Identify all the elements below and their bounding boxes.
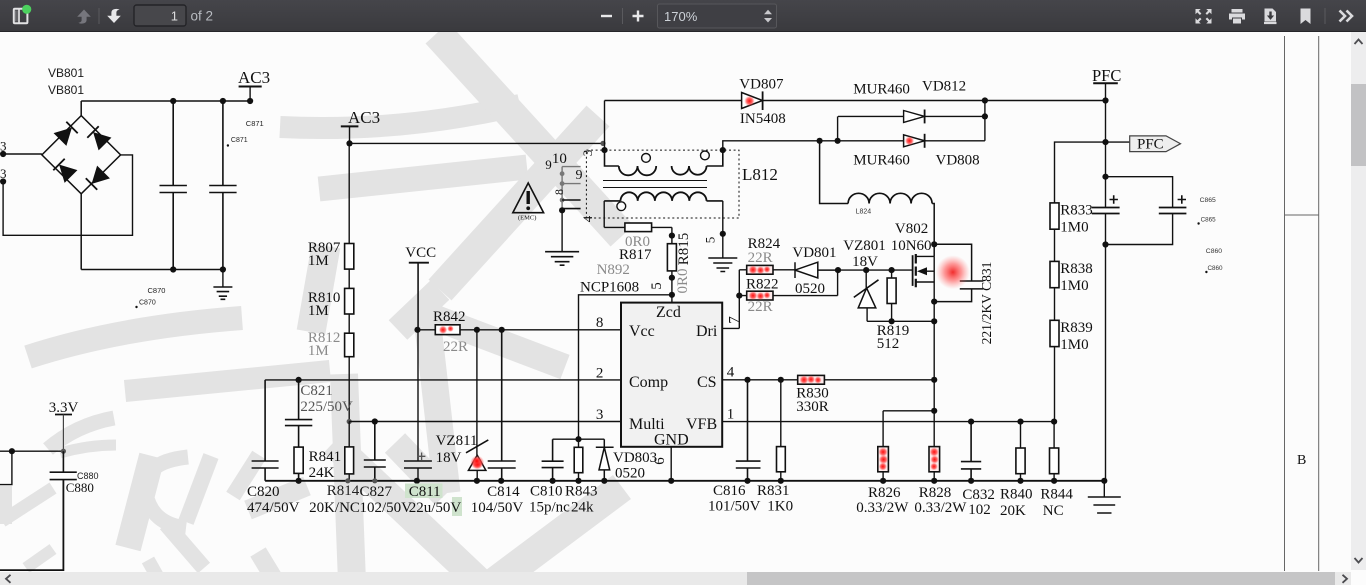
polarity dot (top left) — [642, 154, 651, 163]
svg-text:Multi: Multi — [629, 416, 665, 433]
svg-text:0R0: 0R0 — [675, 268, 691, 293]
AC3 left terminal bar — [239, 86, 262, 88]
svg-text:18V: 18V — [436, 450, 462, 466]
svg-text:R839: R839 — [1060, 320, 1093, 336]
junction — [414, 478, 420, 484]
wire CS rail (pin 4) — [722, 379, 798, 381]
svg-text:Dri: Dri — [696, 323, 718, 340]
junction PFC flag — [1102, 139, 1108, 145]
junction (gray) — [61, 449, 66, 454]
svg-text:C870: C870 — [139, 300, 156, 307]
wire to Multi rail — [348, 357, 350, 422]
transformer L812 dotted box — [586, 150, 739, 218]
resistor R833 — [1050, 203, 1059, 229]
svg-text:225/50V: 225/50V — [300, 399, 353, 415]
svg-text:15p/nc: 15p/nc — [529, 500, 570, 516]
junction VD801 out — [835, 267, 841, 273]
wire Comp rail (pin 2) — [265, 379, 621, 381]
svg-text:CS: CS — [697, 374, 717, 391]
resistor R817 (0R0) — [604, 226, 672, 228]
wire Dri column — [738, 270, 740, 329]
ground (bridge) — [213, 287, 232, 299]
junction — [498, 478, 504, 484]
junction — [778, 478, 784, 484]
svg-text:PFC: PFC — [1137, 137, 1164, 153]
junction — [9, 448, 15, 454]
wire to ground — [222, 270, 224, 288]
page frame lines — [1285, 36, 1319, 571]
resistor R828 — [929, 447, 940, 472]
svg-text:0520: 0520 — [615, 466, 645, 482]
wire bridge bottom rail — [81, 269, 223, 271]
download icon — [1264, 9, 1277, 24]
svg-text:R822: R822 — [746, 277, 779, 293]
svg-text:C827: C827 — [360, 484, 393, 500]
svg-text:18V: 18V — [852, 254, 878, 270]
wire VD812 line — [838, 115, 985, 117]
capacitor C871 — [209, 101, 236, 270]
svg-text:C816: C816 — [713, 483, 746, 499]
svg-text:NC: NC — [1043, 503, 1064, 519]
svg-text:330R: 330R — [796, 399, 829, 415]
svg-text:20K/NC: 20K/NC — [309, 500, 360, 516]
junction R815 bottom — [669, 275, 675, 281]
junction — [1017, 478, 1023, 484]
svg-text:NCP1608: NCP1608 — [580, 280, 639, 296]
svg-text:R815: R815 — [676, 233, 692, 266]
svg-text:C865: C865 — [1201, 217, 1217, 224]
svg-text:VD812: VD812 — [922, 79, 966, 95]
junction (gray) — [600, 141, 605, 146]
svg-text:1: 1 — [727, 407, 735, 423]
wire source column — [933, 282, 935, 447]
svg-text:R840: R840 — [1000, 487, 1033, 503]
wire to R807 — [348, 143, 350, 243]
diode VD807 IN5408 — [742, 93, 763, 109]
capacitor C821 + resistor R841 column — [285, 380, 312, 481]
print icon — [1229, 9, 1245, 24]
bridge rectifier VB801 — [42, 101, 121, 270]
svg-text:24K: 24K — [309, 465, 335, 481]
wire right junction drop — [984, 101, 986, 141]
wire — [933, 472, 935, 481]
svg-text:22R: 22R — [748, 299, 773, 315]
wire — [882, 472, 884, 481]
resistor R824 — [739, 269, 795, 271]
wire top rail (bridge output) — [81, 100, 250, 102]
PFC flag — [1106, 141, 1130, 143]
junction AC3 — [247, 98, 253, 104]
marker dot — [1197, 222, 1199, 224]
svg-text:C880: C880 — [66, 480, 94, 495]
toolbar (pdf.js) — [0, 0, 1366, 32]
svg-text:C814: C814 — [487, 484, 520, 500]
resistor R819 — [891, 270, 893, 321]
svg-text:102/50V: 102/50V — [360, 500, 413, 516]
svg-text:L812: L812 — [742, 165, 778, 184]
svg-text:22u/50V: 22u/50V — [409, 500, 462, 516]
svg-text:9: 9 — [545, 157, 552, 172]
svg-text:V802: V802 — [895, 221, 928, 237]
page number input — [134, 5, 186, 26]
capacitor C880 — [50, 451, 77, 479]
svg-text:VD803: VD803 — [613, 450, 657, 466]
pin (transformer top right) — [720, 147, 726, 153]
wire to main ground — [1103, 481, 1105, 497]
zener VZ811 — [476, 330, 478, 455]
svg-text:N892: N892 — [597, 262, 630, 278]
junction — [968, 478, 974, 484]
junction — [550, 478, 556, 484]
junction — [744, 478, 750, 484]
wire caps bottom — [1106, 214, 1173, 245]
junction — [296, 478, 302, 484]
svg-text:4: 4 — [580, 215, 595, 222]
junction VCC — [414, 327, 420, 333]
gray junction 2 — [560, 181, 565, 186]
junction R843 group — [575, 436, 581, 442]
junction R844/R839 — [1051, 419, 1057, 425]
wire AC input 1 — [3, 153, 42, 155]
svg-text:VD808: VD808 — [936, 153, 980, 169]
gray junction 1 — [560, 171, 565, 176]
svg-text:104/50V: 104/50V — [471, 500, 524, 516]
capacitor C820 — [252, 380, 279, 481]
resistor R838 — [1050, 261, 1059, 287]
diode VD808 MUR460 — [904, 135, 925, 147]
gray junction 3 — [560, 198, 565, 203]
capacitor C832 — [961, 422, 981, 481]
capacitor C831 — [934, 244, 983, 301]
wire AC3 stub — [249, 87, 251, 102]
svg-text:4: 4 — [727, 365, 735, 381]
wire up to VD812 — [837, 116, 839, 140]
resistor R807 — [345, 244, 354, 270]
resistor R826 — [878, 447, 889, 472]
zener VZ801 — [865, 270, 867, 288]
junction C821 — [296, 377, 302, 383]
junction R840 — [1017, 419, 1023, 425]
svg-text:8: 8 — [552, 189, 566, 195]
junction cap branch — [1102, 174, 1108, 180]
wire left drop — [0, 451, 12, 484]
junction C816 — [744, 377, 750, 383]
transistor V802 MOSFET — [912, 255, 914, 286]
resistor R844 — [1053, 422, 1055, 481]
junction — [601, 478, 607, 484]
svg-text:1M0: 1M0 — [1060, 278, 1088, 294]
svg-text:AC3: AC3 — [348, 108, 380, 127]
capacitor C811 (electrolytic) — [404, 263, 432, 481]
svg-text:C810: C810 — [530, 484, 563, 500]
wire C880 to bottom — [0, 480, 63, 570]
junction — [474, 478, 480, 484]
resistor R815 (0R0) — [671, 227, 673, 294]
wire pin 4 drop — [603, 201, 605, 228]
svg-text:1M: 1M — [308, 343, 329, 359]
junction pin 6 — [668, 478, 674, 484]
plus sign C811 — [418, 453, 426, 461]
wire Multi rail (pin 3) — [349, 421, 621, 423]
wire GND pin 6 — [670, 447, 672, 481]
svg-text:1: 1 — [171, 9, 178, 24]
wire to EMC ground — [561, 210, 563, 251]
junction — [982, 97, 988, 103]
PFC terminal bar — [1093, 82, 1118, 84]
junction AC3 rail — [346, 140, 352, 146]
plus sign C860 — [1178, 195, 1186, 203]
EMC pins gray wires — [562, 167, 581, 211]
junction — [1051, 478, 1057, 484]
wire ground rail — [265, 480, 1104, 482]
svg-text:C832: C832 — [962, 487, 995, 503]
svg-text:VB801: VB801 — [48, 66, 84, 80]
node input 2 — [0, 178, 6, 184]
core lines — [603, 181, 707, 188]
wire gate rail — [838, 269, 913, 271]
wire R826 branch — [883, 410, 934, 412]
resistor R839 — [1050, 320, 1059, 346]
svg-text:PFC: PFC — [1092, 66, 1121, 85]
diode VD803 — [596, 439, 614, 481]
resistor R841 — [294, 447, 303, 473]
svg-text:IN5408: IN5408 — [740, 111, 786, 127]
resistor R810 — [345, 288, 354, 314]
ground (transformer pin 5) — [708, 258, 737, 272]
svg-text:MUR460: MUR460 — [853, 153, 910, 169]
wire AC3 stub 2 — [349, 126, 351, 143]
svg-text:0.33/2W: 0.33/2W — [856, 500, 909, 516]
winding secondary (bottom) — [604, 200, 620, 202]
wire pin 5 drop — [722, 201, 724, 258]
junction R815 top — [669, 233, 675, 239]
svg-text:Zcd: Zcd — [656, 304, 681, 321]
horizontal scrollbar — [0, 572, 1351, 585]
junction R819 — [889, 267, 895, 273]
separator — [98, 8, 100, 24]
wire PFC column — [1105, 83, 1107, 207]
svg-text:R844: R844 — [1040, 487, 1073, 503]
node input 1 — [0, 151, 6, 157]
presentation mode icon — [1195, 9, 1211, 24]
resistor R812 — [345, 333, 354, 357]
svg-text:C871: C871 — [231, 137, 248, 144]
svg-text:R838: R838 — [1060, 261, 1093, 277]
junction (gray) — [345, 478, 350, 483]
svg-text:VZ801: VZ801 — [843, 238, 886, 254]
svg-text:R841: R841 — [309, 449, 342, 465]
svg-text:R843: R843 — [565, 484, 598, 500]
3.3V terminal bar — [55, 414, 72, 416]
svg-text:R814: R814 — [327, 483, 360, 499]
diode VD801 — [795, 262, 838, 278]
wire Zcd rail — [579, 295, 672, 439]
wire to R826 — [882, 411, 884, 447]
EMC cap plates — [562, 200, 581, 209]
junction C814 column — [499, 327, 505, 333]
svg-text:VZ811: VZ811 — [436, 433, 478, 449]
wire R833 branch — [1055, 142, 1106, 203]
wire Dri pin 7 — [722, 327, 739, 329]
junction main ground — [1101, 478, 1107, 484]
capacitor C870 — [160, 101, 187, 270]
svg-text:3: 3 — [580, 150, 595, 157]
svg-text:C871: C871 — [246, 119, 264, 128]
junction — [170, 98, 176, 104]
junction C831 bottom — [931, 299, 937, 305]
sidebar toggle icon — [14, 9, 28, 23]
resistor R842 — [435, 325, 460, 335]
capacitor C827 — [364, 422, 386, 481]
junction R831 — [778, 377, 784, 383]
wire left net — [0, 450, 63, 452]
bookmark icon — [1301, 9, 1311, 25]
svg-text:3: 3 — [596, 407, 604, 423]
bridge diodes — [53, 122, 110, 190]
highlight marker C831 — [936, 255, 970, 289]
svg-text:VB801: VB801 — [48, 83, 84, 97]
junction R826 branch — [931, 408, 937, 414]
junction C827 — [372, 418, 378, 424]
polarity dot (bottom) — [617, 202, 626, 211]
junction VD812 branch — [835, 138, 841, 144]
resistor R830 — [798, 375, 825, 384]
svg-text:20K: 20K — [1000, 503, 1026, 519]
junction VZ801 — [863, 267, 869, 273]
vertical scrollbar — [1351, 32, 1366, 570]
capacitor C865 (electrolytic) — [1092, 208, 1120, 214]
green notification dot — [22, 5, 31, 14]
wire R843 group rail — [553, 438, 605, 440]
svg-text:221/2KV C831: 221/2KV C831 — [979, 262, 994, 345]
capacitor C860 (electrolytic) — [1159, 208, 1187, 214]
AC3 terminal bar — [341, 125, 359, 127]
svg-text:5: 5 — [703, 237, 718, 244]
wire 3.3V stub — [62, 415, 64, 452]
marker dot C870 — [135, 306, 137, 308]
svg-text:R842: R842 — [433, 309, 466, 325]
resistor R843 — [578, 439, 580, 481]
marker dot — [1205, 271, 1207, 273]
junction VZ811 column — [474, 327, 480, 333]
svg-text:170%: 170% — [664, 9, 698, 24]
junction — [889, 318, 895, 324]
junction source column — [931, 318, 937, 324]
junction CS rail — [931, 377, 937, 383]
zoom out — [601, 15, 612, 17]
svg-text:1K0: 1K0 — [767, 499, 793, 515]
capacitor C814 — [488, 330, 516, 481]
svg-text:(EMC): (EMC) — [518, 215, 536, 222]
previous page arrow (disabled) — [77, 10, 91, 24]
svg-text:GND: GND — [654, 432, 689, 449]
junction (gray) — [347, 419, 352, 424]
svg-text:C821: C821 — [300, 383, 333, 399]
junction L824 — [817, 138, 823, 144]
svg-text:5: 5 — [649, 282, 665, 290]
wire to VFB rail — [1054, 347, 1056, 422]
junction — [880, 478, 886, 484]
svg-text:R826: R826 — [868, 485, 901, 501]
junction — [931, 478, 937, 484]
resistor R840 — [1020, 422, 1022, 481]
resistor R831 — [780, 380, 782, 481]
wire VCC stub — [417, 263, 419, 330]
marker dot C871 — [227, 144, 229, 146]
wire — [418, 329, 436, 331]
svg-text:Comp: Comp — [629, 374, 668, 391]
wire VFB rail (pin 1) — [722, 421, 1054, 423]
svg-text:B: B — [1297, 453, 1306, 468]
op-amp U1 NCP1608 body — [621, 303, 722, 447]
wire — [1054, 229, 1056, 261]
diode VD812 MUR460 — [904, 111, 925, 123]
svg-text:Vcc: Vcc — [629, 323, 655, 340]
junction — [170, 266, 176, 272]
polarity dot (top right) — [701, 151, 710, 160]
svg-text:R831: R831 — [757, 483, 790, 499]
resistor R814 — [348, 422, 350, 481]
wire — [348, 314, 350, 333]
svg-text:22R: 22R — [443, 339, 468, 355]
junction VD812 — [982, 113, 988, 119]
junction caps bottom — [1102, 241, 1108, 247]
wire Vcc rail to IC pin 8 — [460, 329, 621, 331]
svg-text:R817: R817 — [619, 247, 652, 263]
plus sign C865 — [1110, 195, 1118, 203]
svg-text:1M0: 1M0 — [1060, 337, 1088, 353]
svg-text:7: 7 — [727, 316, 743, 324]
svg-text:3: 3 — [0, 166, 7, 181]
svg-text:101/50V: 101/50V — [708, 499, 761, 515]
junction Zcd — [669, 292, 675, 298]
wire transformer to VD808 line — [723, 141, 985, 150]
svg-text:24k: 24k — [571, 500, 594, 516]
junction EMC — [559, 207, 565, 213]
svg-text:8: 8 — [596, 315, 604, 331]
junction — [220, 98, 226, 104]
junction (gray) — [372, 478, 377, 483]
svg-text:9: 9 — [576, 168, 583, 183]
highlight C811 green — [405, 484, 443, 499]
wire AC3 rail to transformer — [350, 142, 605, 144]
wire AC input 2 path — [3, 155, 132, 235]
inductor L824 — [820, 141, 849, 204]
svg-text:VD801: VD801 — [792, 245, 836, 261]
warning triangle (EMC) — [513, 183, 544, 213]
zoom dropdown — [658, 4, 777, 28]
ground (EMC) — [545, 252, 579, 266]
svg-text:R828: R828 — [919, 485, 952, 501]
svg-text:VFB: VFB — [686, 416, 717, 433]
svg-text:L824: L824 — [856, 209, 872, 216]
svg-text:10: 10 — [552, 151, 567, 167]
svg-text:AC3: AC3 — [238, 68, 270, 87]
svg-text:0520: 0520 — [795, 281, 825, 297]
VCC terminal bar — [409, 262, 429, 264]
junction pin 5 — [720, 231, 726, 237]
svg-text:C820: C820 — [247, 484, 280, 500]
svg-text:474/50V: 474/50V — [247, 500, 300, 516]
winding primary (top) — [605, 150, 619, 166]
wire top rail right — [763, 100, 1106, 102]
junction C832 — [968, 419, 974, 425]
capacitor C810 — [542, 439, 564, 481]
zoom in — [633, 11, 644, 22]
wire source rail — [867, 320, 934, 322]
resistor R822 — [739, 270, 837, 296]
junction PFC — [1102, 97, 1108, 103]
